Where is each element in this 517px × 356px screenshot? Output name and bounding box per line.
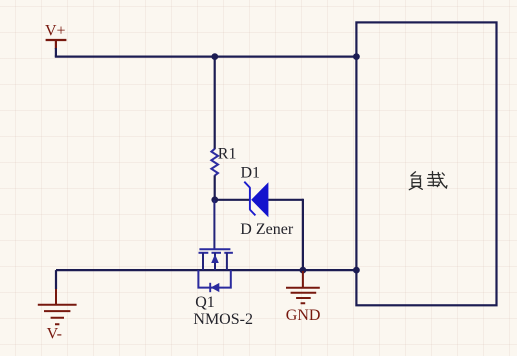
svg-text:V+: V+: [45, 22, 66, 39]
transistor Q1 gate bar: [199, 248, 230, 250]
wire top rail: [55, 55, 357, 57]
transistor Q1 body arrow: [211, 254, 219, 263]
junction dot ground node: [300, 267, 307, 274]
transistor Q1 channel segment drain: [199, 252, 209, 254]
svg-text:V-: V-: [47, 325, 62, 342]
label NMOS-2: [193, 311, 253, 328]
label D1: [241, 164, 261, 181]
junction dot top load: [353, 53, 360, 60]
resistor R1: [211, 149, 218, 176]
wire R1 upper lead: [214, 57, 216, 150]
wire corner down to ground rail: [302, 199, 304, 270]
svg-text:GND: GND: [286, 307, 321, 324]
transistor Q1 body diode bar: [209, 283, 211, 292]
label V+: [45, 22, 66, 39]
wire bottom rail: [56, 269, 356, 271]
load box: [356, 22, 496, 305]
label R1: [218, 146, 237, 163]
svg-text:R1: R1: [218, 146, 237, 163]
label load hanzi fu: [409, 172, 422, 190]
diode D1 zener cathode bar: [244, 182, 255, 216]
svg-text:Q1: Q1: [195, 294, 215, 311]
power port V- stem: [55, 289, 57, 304]
junction dot load bottom: [353, 267, 360, 274]
label V-: [47, 325, 62, 342]
wire V- drop navy part: [55, 270, 57, 289]
power port V- ground bars: [38, 305, 77, 325]
label load hanzi zai: [428, 172, 447, 189]
transistor Q1 body diode loop: [198, 270, 230, 288]
svg-text:NMOS-2: NMOS-2: [193, 311, 253, 328]
transistor Q1 channel segment body: [212, 252, 222, 254]
svg-text:D1: D1: [241, 164, 261, 181]
transistor Q1 left leg pin: [202, 253, 204, 270]
ground GND bars: [286, 288, 320, 304]
wire zener to corner: [268, 199, 303, 201]
label GND: [286, 307, 321, 324]
ground GND stem: [302, 271, 304, 288]
power port V+ bar: [46, 40, 67, 49]
transistor Q1 channel segment source: [224, 252, 233, 254]
transistor Q1 middle leg pin: [214, 253, 216, 270]
label Q1: [195, 294, 215, 311]
junction dot top R1 branch: [211, 53, 218, 60]
wire V+ stem: [55, 48, 57, 57]
svg-text:D Zener: D Zener: [240, 221, 294, 238]
label D Zener: [240, 221, 294, 238]
transistor Q1 body diode triangle: [211, 283, 220, 292]
wire R1 lower lead: [214, 175, 216, 200]
junction dot gate node: [211, 196, 218, 203]
transistor Q1 right leg pin: [226, 253, 228, 270]
diode D1 zener triangle: [251, 182, 268, 217]
wire gate lead: [213, 200, 215, 249]
wire gate node to zener: [215, 199, 250, 201]
